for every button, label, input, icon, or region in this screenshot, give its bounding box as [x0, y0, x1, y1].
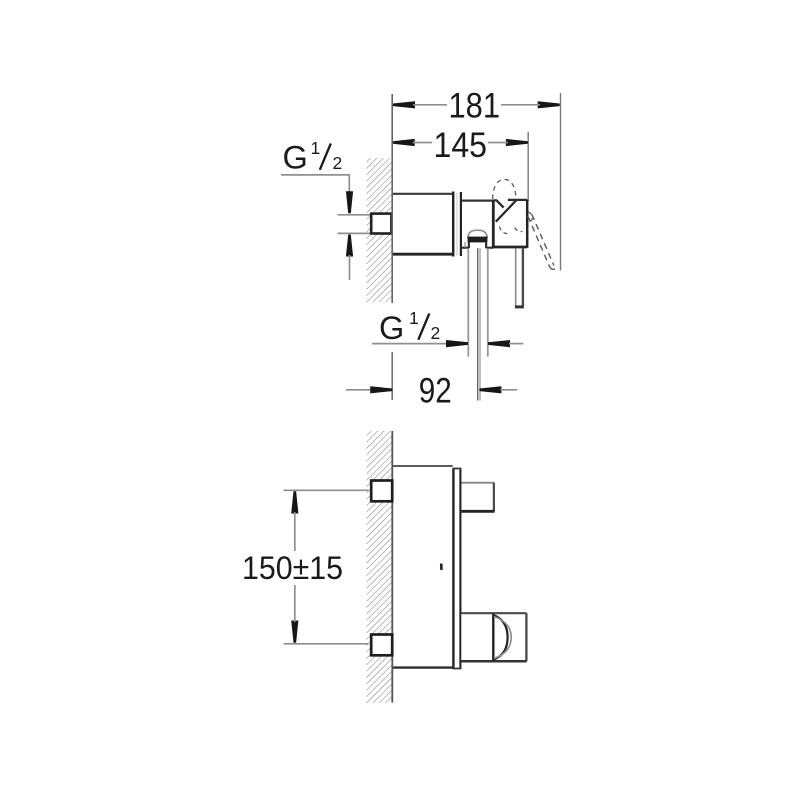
supply pipe stub through wall [371, 214, 391, 234]
lever rod (solid, down) [515, 248, 524, 307]
dimension 150+-15 extension lines [284, 489, 369, 491]
lever diagonal (solid) [496, 200, 517, 222]
wall hatching (top view) [367, 158, 393, 302]
svg-text:150±15: 150±15 [242, 550, 343, 586]
svg-text:92: 92 [419, 371, 452, 410]
wall hatching (bottom view) [367, 431, 393, 703]
wall surface line (front view, over body) [391, 431, 393, 703]
wall plug top (front view) [371, 481, 392, 502]
inlet union (front view, top right) [462, 483, 495, 512]
dimension 150+-15 vertical line and arrows [291, 491, 298, 643]
dimension line 145 [393, 139, 528, 146]
arrow down to pipe top [346, 191, 353, 213]
pipe extension lines [338, 214, 372, 216]
escutcheon rings (side view) [453, 192, 461, 257]
valve neck (side view) [461, 201, 493, 248]
svg-text:1: 1 [409, 308, 419, 328]
svg-text:1: 1 [311, 138, 321, 158]
dimension line 181 [393, 101, 560, 108]
svg-text:G: G [379, 310, 404, 346]
dashed squiggle inside block 1 [500, 227, 509, 234]
svg-text:G: G [283, 140, 308, 176]
handle block (side view) [493, 200, 527, 248]
svg-text:145: 145 [434, 126, 488, 165]
shower outlet dome [468, 230, 488, 238]
dimension 145 extension line right [527, 132, 529, 201]
label G 1/2 (lower, outlet) [379, 308, 440, 346]
outlet G1/2 extension lines (outer) [467, 248, 469, 356]
arrow up to pipe bottom [346, 235, 353, 281]
dashed lever alt position (down-right) [528, 214, 555, 269]
wall plug bottom (front view) [371, 635, 392, 656]
G1/2 outlet dimension arrows [372, 340, 524, 347]
outlet collar sides [469, 242, 486, 248]
label G 1/2 (top left) [283, 138, 343, 176]
outlet pipe centre lines (inner pair) [477, 248, 479, 400]
svg-text:2: 2 [333, 153, 343, 173]
mixer body (side view) [392, 194, 453, 254]
svg-text:181: 181 [449, 87, 501, 126]
dimension 181 extension line right [560, 93, 562, 271]
svg-text:2: 2 [431, 323, 441, 343]
dashed squiggle inside block 2 [515, 228, 523, 232]
dashed lever alt position (up) blob [493, 179, 516, 199]
mixer body (front view) [392, 466, 453, 668]
escutcheon band (front view) [452, 468, 461, 669]
dashed squiggle right of block [528, 212, 532, 221]
screw slot tick on body [440, 564, 443, 571]
dimension 92 [346, 386, 517, 393]
outlet dark collar band [468, 237, 488, 243]
leader line for G 1/2 top [281, 175, 349, 196]
wall surface line (top view, over body) [391, 94, 393, 303]
handle knob (front view, bottom right) [461, 613, 526, 661]
